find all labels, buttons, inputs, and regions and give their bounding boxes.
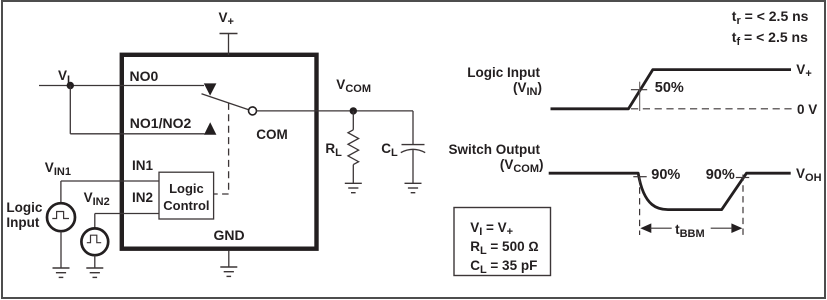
label V+ top xyxy=(219,11,234,30)
label 0 V xyxy=(797,103,817,117)
label (VIN) xyxy=(440,81,542,100)
wire IN2 xyxy=(95,213,159,215)
label 90% left xyxy=(651,169,680,183)
NO1/NO2 contact triangle xyxy=(204,122,216,134)
label 90% right xyxy=(706,169,735,183)
resistor RL xyxy=(348,111,359,183)
90% tick mark right xyxy=(736,177,749,179)
node junction dot at VI xyxy=(67,82,74,89)
label (VCOM) xyxy=(440,158,544,177)
switch output waveform xyxy=(549,173,791,209)
wire VI input to NO0 xyxy=(39,85,204,87)
wire COM to load xyxy=(257,110,414,112)
label VI xyxy=(58,69,70,88)
label V+ waveform xyxy=(796,63,811,82)
50% guide line xyxy=(639,82,641,111)
label VIN2 xyxy=(84,191,110,210)
wire pulse generator 2 to ground xyxy=(94,255,96,268)
50% tick mark xyxy=(631,89,647,91)
label tBBM xyxy=(675,223,705,242)
capacitor CL xyxy=(401,111,425,183)
pulse generator source 2 xyxy=(81,228,108,255)
label Logic Input source xyxy=(6,201,42,230)
wire IN1 xyxy=(61,180,159,182)
label VOH xyxy=(796,167,822,186)
ground 1 xyxy=(53,268,70,277)
tBBM arrow left xyxy=(640,223,671,233)
label condition RL xyxy=(470,240,539,259)
label CL xyxy=(381,142,397,161)
dashed guide line left xyxy=(639,177,641,236)
0 V dashed baseline xyxy=(631,108,792,110)
tBBM arrow right xyxy=(711,223,743,233)
logic input waveform xyxy=(551,70,792,109)
NO0 contact triangle xyxy=(204,83,217,95)
label Logic Control xyxy=(159,180,214,214)
label VCOM node xyxy=(336,78,371,97)
pulse generator source 1 xyxy=(47,203,75,231)
wire V+ stem xyxy=(228,34,230,56)
label Logic Input waveform xyxy=(440,66,540,80)
label RL xyxy=(325,142,341,161)
label VIN1 xyxy=(45,161,71,180)
90% tick mark left xyxy=(633,176,646,178)
label COM xyxy=(256,128,288,142)
V+ supply bar xyxy=(220,33,238,35)
label Switch Output xyxy=(440,143,540,157)
wire GND pin stem xyxy=(228,251,230,268)
label condition VI xyxy=(470,221,513,240)
label NO0 xyxy=(130,70,159,84)
switch pole bar xyxy=(202,94,249,110)
label tr spec xyxy=(732,10,809,29)
label condition CL xyxy=(470,259,537,278)
label GND xyxy=(214,229,245,243)
dashed control line vertical xyxy=(228,103,230,194)
ground 4 (RL) xyxy=(345,183,362,192)
label NO1/NO2 xyxy=(130,117,191,131)
wire pulse generator 1 to ground xyxy=(60,231,62,268)
ground 3 (GND pin) xyxy=(220,267,237,276)
label tf spec xyxy=(732,31,808,50)
wire pulse generator 2 stem xyxy=(94,214,96,229)
ground 2 xyxy=(86,268,103,277)
dashed control line horizontal xyxy=(214,193,229,195)
wire pulse generator 1 stem xyxy=(60,181,62,203)
dashed guide line right xyxy=(742,175,744,236)
label IN1 xyxy=(132,159,153,173)
wire to NO1/NO2 xyxy=(70,133,204,135)
COM contact circle xyxy=(249,107,257,115)
label IN2 xyxy=(132,191,153,205)
ground 5 (CL) xyxy=(405,183,422,192)
conditions box xyxy=(454,208,551,276)
wire branch down from VI node xyxy=(69,86,71,134)
label 50% xyxy=(655,82,684,96)
logic control box xyxy=(159,172,214,219)
main IC box U1 xyxy=(122,55,317,249)
node junction dot at RL xyxy=(350,107,357,114)
